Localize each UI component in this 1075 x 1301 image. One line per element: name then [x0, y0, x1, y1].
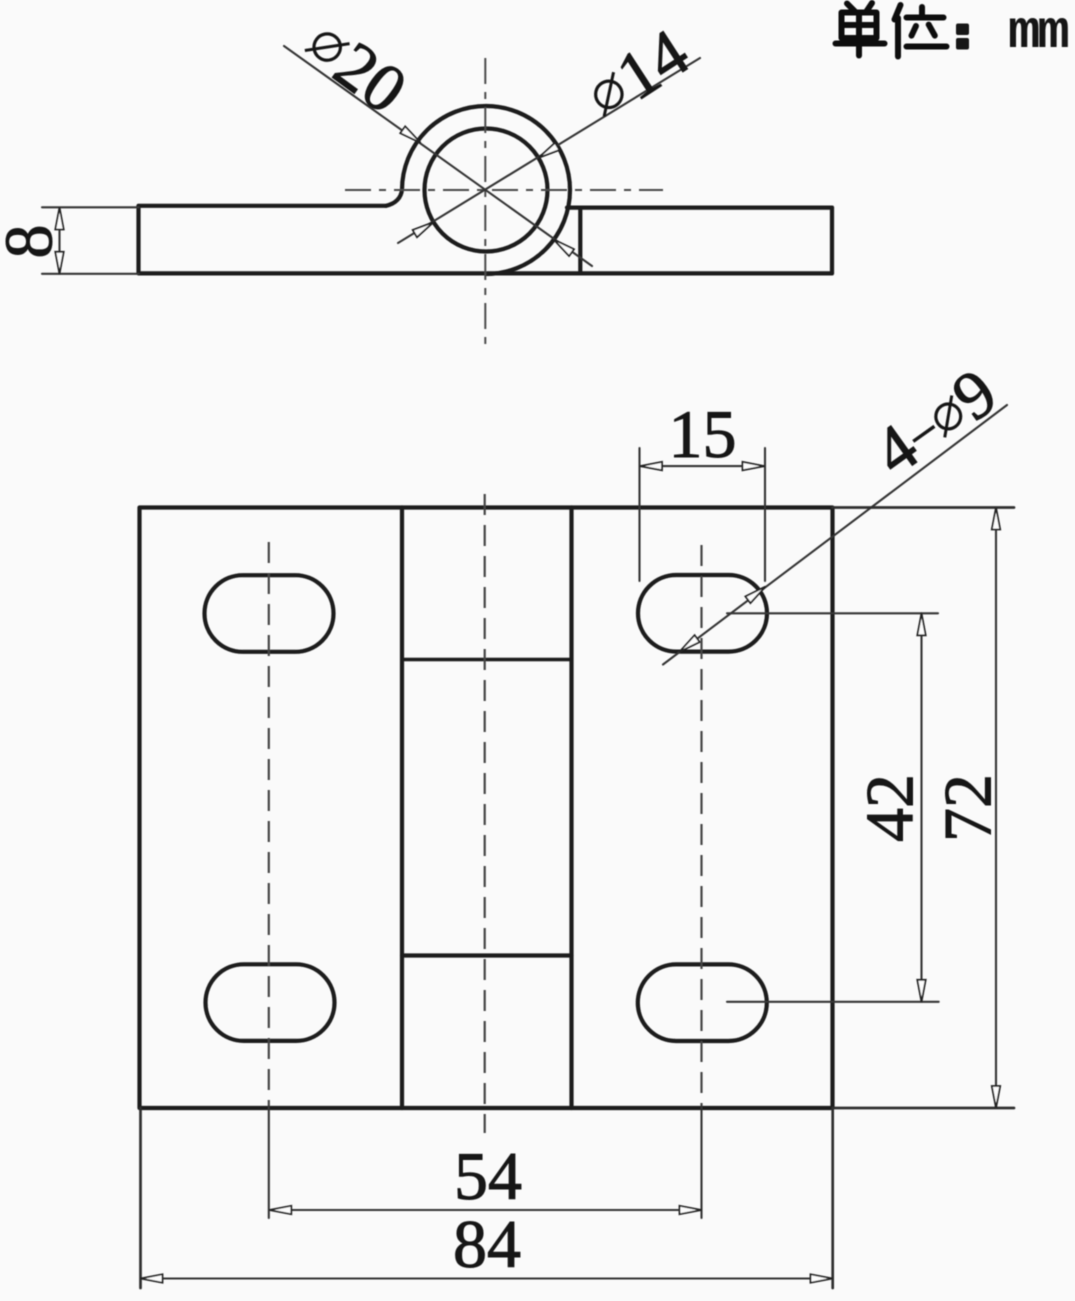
unit label 单位：mm — [836, 3, 1069, 64]
side view vertical centerline — [484, 58, 486, 345]
dimension 72 line — [995, 508, 997, 1109]
dimension 15 left arrow — [640, 462, 662, 470]
slot hole top-left — [205, 575, 334, 652]
side view fillet into knuckle — [386, 190, 402, 206]
side view horizontal centerline — [345, 189, 663, 191]
dimension ∅20 leader line — [284, 46, 592, 266]
front view knuckle joint upper line — [402, 658, 572, 661]
dimension 84 left arrow — [141, 1274, 163, 1282]
hanzi 位 — [895, 5, 947, 57]
label 4-∅9 upper arrow — [745, 587, 765, 604]
dimension 72 down arrow — [992, 1086, 1000, 1108]
dimension 15 line — [640, 465, 765, 467]
front view plate outline — [140, 508, 833, 1109]
dimension ∅20 lower arrow — [554, 240, 574, 256]
dimension 8 line — [58, 208, 60, 274]
dimension 54 line — [269, 1209, 701, 1211]
dimension 42 up arrow — [917, 613, 925, 635]
front view knuckle strip right line — [569, 508, 573, 1109]
svg-text:84: 84 — [453, 1206, 521, 1282]
front view knuckle joint lower line — [402, 953, 572, 957]
dimension 84 right arrow — [811, 1274, 833, 1282]
dimension 42 line — [920, 613, 922, 1002]
dimension 54 right extension — [700, 1107, 702, 1219]
dimension 84 line — [141, 1277, 833, 1279]
dimension 8 up arrow — [55, 208, 63, 230]
left slots centerline — [268, 542, 270, 1106]
dimension 54 left arrow — [269, 1206, 291, 1214]
svg-text:42: 42 — [852, 774, 928, 842]
side view left plate top edge — [139, 204, 387, 208]
front view knuckle strip left line — [400, 508, 404, 1109]
dimension 84 left extension — [139, 1108, 142, 1288]
side view left plate left edge — [136, 206, 140, 273]
dimension ∅14 upper arrow — [538, 143, 559, 158]
dimension 8 bottom extension line — [42, 273, 139, 275]
dimension 8 down arrow — [55, 252, 63, 274]
dimension 42 top extension — [727, 612, 938, 614]
side view right plate top edge — [567, 206, 832, 210]
dimension 8 top extension line — [42, 206, 139, 208]
svg-text:15: 15 — [669, 396, 737, 472]
fullwidth colon — [956, 24, 969, 36]
dimension 72 up arrow — [992, 508, 1000, 530]
label 4-∅9 lower arrow — [680, 635, 700, 652]
dimension 15 right extension — [764, 448, 766, 581]
dimension 72 top extension — [833, 506, 1015, 509]
svg-text:9: 9 — [938, 353, 1010, 435]
svg-text:14: 14 — [603, 14, 701, 115]
dimension ∅20 text — [293, 6, 421, 128]
label 4-∅9 text — [860, 353, 1011, 491]
hanzi 单 — [836, 3, 885, 56]
dimension 42 bottom extension — [727, 1001, 939, 1003]
svg-text:72: 72 — [930, 774, 1006, 842]
side view right plate right edge — [830, 208, 834, 274]
dimension ∅14 lower arrow — [413, 222, 434, 237]
dimension ∅14 text — [574, 14, 702, 134]
dimension 15 left extension — [638, 448, 640, 581]
front view vertical centerline — [484, 494, 486, 1133]
dimension 72 bottom extension — [833, 1107, 1015, 1110]
slot hole top-right — [638, 575, 767, 652]
dimension ∅14 leader line — [398, 58, 700, 243]
dimension 84 right extension — [831, 1108, 834, 1288]
right slots centerline — [700, 545, 702, 1106]
dimension 42 down arrow — [917, 980, 925, 1002]
svg-text:54: 54 — [454, 1138, 522, 1214]
label 4-∅9 leader line — [663, 405, 1007, 665]
svg-text:4: 4 — [860, 408, 932, 490]
side view right plate left edge — [578, 208, 582, 272]
dimension 54 right arrow — [680, 1206, 702, 1214]
svg-text:20: 20 — [321, 26, 421, 127]
slot hole bottom-right — [638, 964, 767, 1041]
dimension 54 left extension — [268, 1107, 270, 1219]
svg-text:mm: mm — [1008, 3, 1068, 64]
svg-text:8: 8 — [0, 225, 67, 259]
dimension ∅20 upper arrow — [400, 126, 420, 142]
dimension 15 right arrow — [743, 462, 765, 470]
side view knuckle inner circle (pin hole ∅14) — [425, 129, 548, 252]
side view bottom edge — [139, 271, 833, 275]
slot hole bottom-left — [206, 964, 335, 1041]
side view knuckle outer circle arc — [402, 106, 570, 274]
